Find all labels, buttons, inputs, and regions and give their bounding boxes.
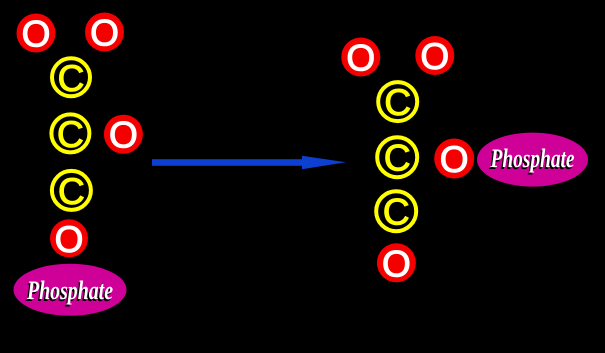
left molecule: oxygen atom O2 (top-right) (85, 13, 124, 54)
right molecule: carbon atom C6 (376, 191, 416, 233)
right molecule: oxygen atom O7 (right of C5) (434, 139, 474, 181)
right molecule: oxygen atom O8 (bottom) (377, 243, 416, 284)
svg-text:C: C (384, 138, 411, 179)
svg-text:O: O (382, 243, 411, 284)
left molecule: oxygen atom O3 (right of C2) (104, 115, 143, 156)
svg-text:C: C (58, 58, 85, 99)
reaction arrow (blue) (152, 156, 346, 170)
svg-text:O: O (346, 38, 375, 79)
svg-text:C: C (383, 192, 410, 233)
right phosphate group label (magenta ellipse) (477, 133, 588, 187)
right molecule: oxygen atom O6 (top-right) (415, 36, 454, 77)
svg-text:C: C (58, 171, 85, 212)
left phosphate group label (magenta ellipse) (14, 264, 127, 316)
left molecule: carbon atom C1 (52, 58, 90, 99)
svg-text:Phosphate: Phosphate (490, 144, 575, 173)
svg-text:C: C (384, 82, 411, 123)
right molecule: carbon atom C5 (377, 137, 417, 179)
left molecule: carbon atom C3 (52, 171, 91, 212)
svg-text:O: O (90, 13, 119, 54)
right molecule: oxygen atom O5 (top-left) (341, 38, 380, 79)
svg-text:O: O (109, 115, 138, 156)
svg-text:O: O (420, 36, 449, 77)
svg-text:Phosphate: Phosphate (26, 276, 113, 305)
svg-text:C: C (57, 114, 84, 155)
left molecule: oxygen atom O1 (top-left) (17, 14, 56, 55)
left molecule: oxygen atom O4 (bottom) (50, 219, 88, 260)
svg-text:O: O (55, 219, 84, 260)
svg-text:O: O (440, 139, 469, 180)
left molecule: carbon atom C2 (51, 114, 89, 155)
right molecule: carbon atom C4 (378, 82, 417, 123)
svg-text:O: O (22, 14, 51, 55)
